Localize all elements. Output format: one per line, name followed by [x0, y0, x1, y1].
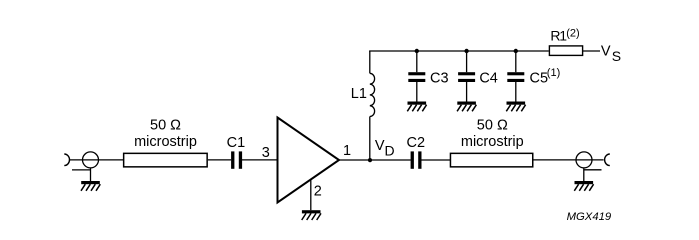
- svg-text:L1: L1: [351, 86, 367, 102]
- svg-text:1: 1: [343, 143, 351, 159]
- svg-text:2: 2: [314, 184, 322, 200]
- wire C4 stem upper: [466, 51, 468, 72]
- capacitor C1: [231, 151, 242, 168]
- node junction dot C5: [514, 49, 518, 53]
- ground input connector: [81, 181, 100, 191]
- wire pin 2 to ground: [310, 180, 312, 211]
- output coax plug arc: [605, 154, 610, 166]
- svg-text:50 Ω: 50 Ω: [477, 118, 508, 134]
- wire C5 stem upper: [515, 51, 517, 72]
- svg-text:C1: C1: [227, 135, 246, 151]
- svg-text:C4: C4: [479, 71, 498, 87]
- svg-text:50 Ω: 50 Ω: [150, 118, 181, 134]
- svg-text:(2): (2): [566, 28, 579, 40]
- wire supply rail: [369, 50, 549, 52]
- svg-text:C3: C3: [430, 71, 449, 87]
- ground C4: [457, 102, 476, 112]
- capacitor C3: [408, 72, 425, 82]
- wire C5 stem lower: [515, 82, 517, 102]
- wire C3 stem upper: [416, 51, 418, 72]
- node junction dot C4: [464, 49, 468, 53]
- wire C1 to pin 3: [242, 159, 277, 161]
- wire microstrip to output connector: [533, 159, 603, 161]
- ground C3: [407, 102, 426, 112]
- svg-text:V: V: [375, 138, 385, 154]
- node VD label: [375, 138, 395, 158]
- node VD junction dot: [368, 158, 372, 162]
- label R1 with note 2: [550, 28, 579, 44]
- svg-text:C2: C2: [407, 135, 426, 151]
- label C5 with note 1: [530, 67, 561, 86]
- wire C3 stem lower: [416, 82, 418, 102]
- ground output connector: [574, 181, 593, 191]
- net VS label: [601, 44, 621, 64]
- svg-text:microstrip: microstrip: [134, 134, 197, 150]
- svg-text:(1): (1): [547, 67, 560, 79]
- op-amp U1 amplifier triangle: [278, 118, 340, 203]
- wire input to microstrip: [69, 159, 123, 161]
- output connector shield line: [584, 169, 602, 171]
- svg-text:C5: C5: [530, 70, 549, 86]
- svg-text:S: S: [612, 48, 621, 64]
- wire pin 1 to C2: [339, 159, 411, 161]
- node junction dot C3: [415, 49, 419, 53]
- microstrip input: [124, 153, 207, 167]
- wire output connector to ground: [583, 168, 585, 181]
- capacitor C5: [507, 72, 524, 82]
- input coax plug arc: [64, 154, 69, 166]
- wire L1 upper: [369, 51, 371, 73]
- svg-text:D: D: [385, 142, 395, 158]
- wire R1 to VS: [582, 50, 600, 52]
- svg-text:3: 3: [262, 145, 270, 161]
- ground C5: [506, 102, 525, 112]
- resistor R1: [549, 46, 582, 56]
- capacitor C4: [458, 72, 475, 82]
- ground pin 2: [302, 210, 321, 220]
- svg-text:R1: R1: [550, 28, 567, 44]
- input connector circle: [83, 152, 99, 168]
- svg-text:MGX419: MGX419: [567, 211, 612, 223]
- wire C2 to microstrip: [421, 159, 450, 161]
- svg-text:microstrip: microstrip: [461, 134, 524, 150]
- wire input connector to ground: [90, 168, 92, 181]
- input connector shield line: [72, 169, 91, 171]
- output connector circle: [576, 152, 592, 168]
- microstrip output: [450, 153, 532, 167]
- wire L1 lower: [369, 117, 371, 161]
- svg-text:V: V: [601, 44, 611, 60]
- wire C4 stem lower: [466, 82, 468, 102]
- inductor L1: [370, 73, 375, 116]
- wire microstrip to C1: [208, 159, 231, 161]
- capacitor C2: [411, 151, 422, 168]
